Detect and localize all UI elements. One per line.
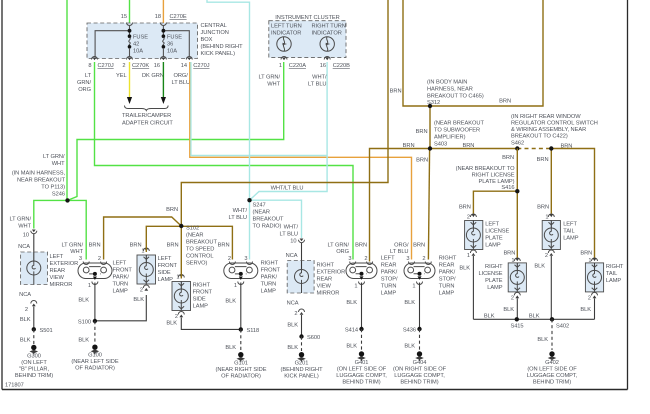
svg-text:WHT/: WHT/	[233, 208, 248, 214]
pin 2 connector	[229, 262, 235, 265]
wire BLK mirror to S600	[301, 315, 303, 337]
svg-text:TO RADIO): TO RADIO)	[253, 224, 282, 230]
svg-text:(NEAR: (NEAR	[253, 210, 270, 216]
svg-text:BRN: BRN	[580, 251, 592, 257]
svg-text:LAMP: LAMP	[439, 291, 455, 297]
svg-text:BLK: BLK	[534, 264, 545, 270]
wire BLK dashed S501 to G300	[33, 329, 35, 344]
svg-text:TURN: TURN	[261, 282, 277, 288]
wire WHT/LT BLU from IC pin16 down to S247	[250, 62, 328, 200]
svg-text:2: 2	[422, 256, 425, 262]
svg-text:TAIL: TAIL	[606, 271, 617, 277]
svg-text:2: 2	[467, 215, 470, 221]
wire LT GRN/WHT from IC pin1 down and left to S246	[68, 62, 284, 200]
svg-text:REAR: REAR	[439, 263, 455, 269]
svg-text:C270J: C270J	[98, 63, 114, 69]
svg-text:TRAILER/CAMPER: TRAILER/CAMPER	[122, 113, 171, 119]
pin 2 connector left mirror	[31, 301, 37, 307]
svg-text:G404: G404	[413, 360, 427, 366]
svg-text:2: 2	[122, 63, 125, 69]
wire 15 LT GRN into CJB	[129, 0, 131, 24]
pin 1 connector	[514, 258, 520, 261]
svg-text:10A: 10A	[133, 49, 143, 55]
svg-text:16: 16	[320, 63, 326, 69]
svg-text:BREAKOUT: BREAKOUT	[186, 240, 217, 246]
pin 3 connector	[409, 262, 415, 265]
wire BLK lamp to S436	[419, 283, 421, 330]
svg-text:(ON LEFT SIDE OF: (ON LEFT SIDE OF	[337, 367, 387, 373]
svg-text:BLK: BLK	[20, 317, 31, 323]
border frame right	[627, 0, 629, 390]
svg-text:2: 2	[511, 296, 514, 302]
border frame bottom	[2, 389, 628, 391]
svg-text:INDICATOR: INDICATOR	[312, 31, 342, 37]
S462 note text	[511, 114, 598, 147]
svg-text:BLK: BLK	[133, 297, 144, 303]
svg-text:VIEW: VIEW	[50, 275, 65, 281]
pin 8 connector symbol	[92, 57, 98, 61]
svg-text:(NEAR LEFT SIDE: (NEAR LEFT SIDE	[71, 359, 118, 365]
svg-text:PLATE: PLATE	[485, 278, 503, 284]
svg-text:S501: S501	[40, 328, 53, 334]
svg-text:BLK: BLK	[537, 337, 548, 343]
svg-text:G300: G300	[27, 354, 41, 360]
NCA stub left mirror	[33, 234, 35, 253]
splice S436	[403, 327, 422, 334]
svg-text:KICK PANEL): KICK PANEL)	[284, 374, 319, 380]
svg-text:TO SUBWOOFER: TO SUBWOOFER	[434, 128, 480, 134]
svg-text:BRN: BRN	[403, 143, 415, 149]
right rear park/stop/turn lamp	[404, 263, 435, 280]
svg-text:NCA: NCA	[287, 301, 299, 307]
svg-text:PARK/: PARK/	[113, 275, 130, 281]
svg-text:HARNESS, NEAR: HARNESS, NEAR	[427, 87, 473, 93]
pin 2 connector	[588, 292, 598, 301]
svg-text:(ON RIGHT SIDE OF: (ON RIGHT SIDE OF	[393, 367, 447, 373]
svg-text:C220B: C220B	[333, 63, 350, 69]
pin 2 connector right mirror	[299, 309, 305, 315]
splice S247	[247, 198, 251, 202]
svg-text:BREAKOUT TO C465): BREAKOUT TO C465)	[427, 94, 484, 100]
svg-text:MIRROR: MIRROR	[317, 291, 340, 297]
border frame left	[1, 0, 3, 390]
svg-text:BRN: BRN	[459, 205, 471, 211]
svg-text:RIGHT: RIGHT	[317, 263, 335, 269]
lamp name	[485, 222, 509, 249]
splice S102	[179, 224, 183, 228]
wire BRN big loop from top S312	[403, 0, 543, 106]
svg-text:LEFT: LEFT	[563, 222, 577, 228]
svg-text:TURN: TURN	[381, 284, 397, 290]
svg-text:SERVO): SERVO)	[186, 261, 208, 267]
svg-text:LEFT: LEFT	[50, 254, 64, 260]
svg-text:REAR: REAR	[381, 263, 397, 269]
svg-text:EXTERIOR: EXTERIOR	[50, 261, 79, 267]
svg-text:G401: G401	[355, 360, 369, 366]
svg-text:LAMP: LAMP	[261, 289, 277, 295]
svg-text:MIRROR: MIRROR	[50, 282, 73, 288]
svg-text:LAMP: LAMP	[158, 277, 174, 283]
svg-text:16: 16	[154, 63, 160, 69]
svg-text:INDICATOR: INDICATOR	[271, 31, 301, 37]
wire BLK lamp to S118	[240, 283, 242, 330]
svg-text:3: 3	[244, 256, 247, 262]
svg-text:BLK: BLK	[20, 338, 31, 344]
svg-text:BRN: BRN	[537, 157, 549, 163]
svg-text:WHT: WHT	[52, 161, 65, 167]
svg-text:BOX: BOX	[201, 37, 213, 43]
left front park/turn lamp	[78, 263, 112, 280]
svg-text:BRN: BRN	[89, 243, 101, 249]
svg-text:BRN: BRN	[537, 205, 549, 211]
svg-text:S246: S246	[52, 192, 65, 198]
svg-text:2: 2	[545, 253, 548, 259]
svg-text:1: 1	[467, 253, 470, 259]
svg-text:2: 2	[588, 296, 591, 302]
wire BRN from top to S102	[181, 0, 388, 224]
wire BLK dashed S402 to G402	[551, 319, 553, 350]
svg-text:EXTERIOR: EXTERIOR	[317, 270, 346, 276]
svg-text:S118: S118	[247, 328, 260, 334]
splice S403	[428, 146, 432, 150]
wire BLK lamp to S414	[361, 283, 363, 330]
wire BLK side lamp to S100	[95, 295, 146, 321]
CJB internal bus left	[95, 26, 131, 57]
wire BRN S312 down to S403	[429, 106, 431, 149]
svg-text:KICK PANEL): KICK PANEL)	[201, 51, 236, 57]
wire WHT/LT BLU thin branch beside orange to IC pin16 net	[191, 62, 327, 156]
pin 2 connector	[425, 262, 431, 265]
S246 branch to left front park/turn pin 3	[68, 200, 87, 259]
splice S402	[550, 317, 569, 329]
svg-text:BRN: BRN	[561, 144, 573, 150]
svg-text:ORG/: ORG/	[174, 73, 189, 79]
svg-text:1: 1	[412, 284, 415, 290]
splice S414	[345, 327, 364, 334]
svg-text:FRONT: FRONT	[193, 290, 213, 296]
svg-text:2: 2	[294, 311, 297, 317]
svg-text:171807: 171807	[5, 383, 24, 389]
pin 2 connector	[175, 312, 184, 321]
left mirror name	[50, 254, 79, 288]
S102 branch left to left front side lamp pin1	[146, 226, 181, 252]
svg-text:C220A: C220A	[289, 63, 306, 69]
lamp name	[158, 256, 178, 283]
wire LT GRN/ORG from CJB pin8 to left rear lamp	[95, 62, 354, 260]
wire BRN S462 down to S416 and right license pin1	[516, 149, 518, 260]
svg-text:1: 1	[279, 63, 282, 69]
svg-text:LEFT: LEFT	[113, 261, 127, 267]
svg-text:FUSE: FUSE	[133, 35, 148, 41]
svg-text:S402: S402	[556, 324, 569, 330]
svg-text:LT: LT	[85, 73, 92, 79]
svg-text:SIDE: SIDE	[158, 270, 171, 276]
splice S312	[428, 104, 432, 108]
svg-text:2: 2	[364, 256, 367, 262]
ground G201	[280, 352, 323, 380]
svg-text:LUGGAGE COMPT,: LUGGAGE COMPT,	[336, 373, 387, 379]
left license plate lamp	[465, 221, 483, 250]
wire BLK dashed S100 to G100	[94, 321, 96, 344]
svg-text:2: 2	[228, 256, 231, 262]
svg-text:ORG: ORG	[78, 87, 91, 93]
right mirror name	[317, 263, 346, 297]
svg-text:18: 18	[155, 14, 161, 20]
svg-text:TURN: TURN	[113, 282, 129, 288]
wire BRN S403 down to right rear lamp pin2	[428, 149, 429, 260]
svg-text:LICENSE: LICENSE	[479, 271, 503, 277]
pin 1 connector	[143, 248, 149, 251]
svg-text:1: 1	[88, 283, 91, 289]
trailer/camper adapter circuit brace and text	[122, 106, 173, 127]
svg-text:GRN/: GRN/	[77, 80, 91, 86]
svg-text:YEL: YEL	[116, 73, 127, 79]
svg-text:LAMP: LAMP	[193, 304, 209, 310]
svg-text:14: 14	[181, 63, 187, 69]
svg-text:RIGHT: RIGHT	[193, 283, 211, 289]
ground G101	[216, 352, 267, 380]
svg-text:ORG/: ORG/	[394, 243, 409, 249]
splice S462	[515, 146, 519, 150]
right mirror bulb	[295, 261, 309, 294]
wire BRN S416 left to left license pin2	[473, 191, 517, 213]
pin 2 connector	[470, 214, 476, 217]
left rear park/stop/turn lamp	[346, 263, 377, 280]
svg-text:BEHIND TRIM): BEHIND TRIM)	[15, 373, 53, 379]
svg-text:(NEAR RIGHT SIDE: (NEAR RIGHT SIDE	[216, 367, 267, 373]
svg-text:LT GRN/: LT GRN/	[327, 243, 349, 249]
svg-text:LUGGAGE COMPT,: LUGGAGE COMPT,	[394, 373, 445, 379]
splice S415	[510, 317, 523, 329]
svg-text:10: 10	[23, 233, 29, 239]
svg-text:BEHIND TRIM): BEHIND TRIM)	[533, 380, 571, 386]
wire BRN S403 left to left rear lamp pin2	[370, 149, 431, 262]
svg-text:S600: S600	[307, 335, 320, 341]
wire BLK ground bus	[473, 318, 594, 320]
svg-text:G201: G201	[295, 361, 309, 367]
left turn indicator lamp	[277, 37, 291, 51]
svg-text:AMPLIFIER): AMPLIFIER)	[434, 135, 466, 141]
lamp name	[381, 256, 398, 297]
svg-text:LICENSE: LICENSE	[485, 229, 509, 235]
svg-text:TURN: TURN	[439, 284, 455, 290]
svg-text:10A: 10A	[167, 49, 177, 55]
wire BLK mirror to S501	[33, 307, 35, 330]
svg-text:BLK: BLK	[346, 300, 357, 306]
wire BLK dashed S118 to G101	[240, 329, 242, 351]
NCA stub right mirror	[301, 243, 303, 261]
svg-text:BLK: BLK	[404, 344, 415, 350]
svg-text:(ON LEFT SIDE OF: (ON LEFT SIDE OF	[527, 367, 577, 373]
svg-text:S247: S247	[253, 203, 266, 209]
svg-text:8: 8	[88, 63, 91, 69]
svg-text:LT BLU: LT BLU	[308, 82, 326, 88]
svg-text:FRONT: FRONT	[261, 268, 281, 274]
svg-text:NCA: NCA	[19, 292, 31, 298]
right turn indicator lamp	[320, 37, 334, 51]
svg-text:10: 10	[290, 239, 296, 245]
pin 1 connector	[412, 282, 422, 290]
pin 2 connector symbol	[127, 57, 133, 61]
wire BLK right front side to S118	[181, 318, 241, 330]
svg-text:LAMP: LAMP	[487, 285, 503, 291]
svg-text:ORG: ORG	[336, 249, 349, 255]
svg-text:3: 3	[406, 256, 409, 262]
svg-text:BRN: BRN	[413, 243, 425, 249]
svg-text:LAMP: LAMP	[606, 278, 622, 284]
svg-text:(IN RIGHT REAR WINDOW: (IN RIGHT REAR WINDOW	[511, 114, 581, 120]
right tail lamp	[585, 263, 603, 292]
svg-text:RIGHT: RIGHT	[439, 256, 457, 262]
svg-text:BRN: BRN	[499, 99, 511, 105]
svg-text:(BEHIND RIGHT: (BEHIND RIGHT	[280, 367, 323, 373]
svg-text:36: 36	[167, 42, 173, 48]
svg-text:G402: G402	[545, 360, 559, 366]
svg-text:LEFT: LEFT	[381, 256, 395, 262]
svg-text:PARK/: PARK/	[439, 270, 456, 276]
lamp name	[606, 264, 624, 284]
svg-text:LAMP: LAMP	[113, 289, 129, 295]
svg-text:BLK: BLK	[459, 266, 470, 272]
pin 16 connector symbol	[160, 57, 166, 61]
wire BLK dashed S414 to G401	[361, 329, 363, 350]
svg-text:OF RADIATOR): OF RADIATOR)	[221, 374, 261, 380]
svg-text:S436: S436	[403, 328, 416, 334]
svg-text:LT GRN/: LT GRN/	[61, 243, 83, 249]
svg-text:STOP/: STOP/	[381, 277, 398, 283]
svg-text:LAMP: LAMP	[563, 236, 579, 242]
svg-text:BLK: BLK	[225, 299, 236, 305]
splice tail tap	[549, 146, 553, 150]
svg-text:LEFT TURN: LEFT TURN	[271, 24, 302, 30]
svg-text:REGULATOR CONTROL SWITCH: REGULATOR CONTROL SWITCH	[511, 121, 598, 127]
svg-text:BLK: BLK	[287, 345, 298, 351]
svg-text:(BEHIND RIGHT: (BEHIND RIGHT	[201, 44, 244, 50]
svg-text:WHT: WHT	[18, 224, 31, 230]
svg-text:BRN: BRN	[130, 243, 142, 249]
svg-text:LT GRN/: LT GRN/	[43, 154, 65, 160]
svg-text:(NEAR BREAKOUT TO: (NEAR BREAKOUT TO	[456, 166, 516, 172]
svg-text:BRN: BRN	[390, 89, 402, 95]
S102 branch left to left front park pin2	[104, 217, 182, 260]
splice S600	[299, 334, 320, 341]
wire BLK left license to bus	[472, 256, 474, 319]
svg-text:INSTRUMENT CLUSTER: INSTRUMENT CLUSTER	[275, 15, 339, 21]
svg-text:S100: S100	[78, 320, 91, 326]
wire 18 ORG into CJB	[162, 0, 164, 24]
svg-text:BRN: BRN	[355, 243, 367, 249]
pin 1 connector	[178, 275, 184, 278]
pin 18 connector symbol	[160, 23, 166, 26]
ground G401	[336, 351, 387, 385]
svg-text:(IN BODY MAIN: (IN BODY MAIN	[427, 80, 467, 86]
pin 2 connector	[140, 285, 149, 294]
svg-text:G100: G100	[88, 353, 102, 359]
svg-text:RIGHT: RIGHT	[261, 261, 279, 267]
svg-text:STOP/: STOP/	[439, 277, 456, 283]
splice S416	[515, 189, 519, 193]
svg-text:BLK: BLK	[404, 300, 415, 306]
splice S118	[239, 327, 260, 334]
svg-text:42: 42	[133, 42, 139, 48]
pin 1 connector	[234, 282, 244, 290]
svg-text:G101: G101	[234, 361, 248, 367]
svg-text:OF RADIATOR): OF RADIATOR)	[75, 366, 115, 372]
ground G402	[527, 351, 578, 385]
left tail lamp	[542, 221, 560, 250]
wire BLK right tail to bus	[594, 298, 596, 319]
svg-text:BLK: BLK	[78, 298, 89, 304]
pin 1 connector	[592, 258, 598, 261]
ground G404	[393, 351, 447, 385]
fuse 42 10A	[128, 34, 149, 57]
S247 branch to right mirror pin 10	[250, 200, 302, 238]
svg-text:& WIRING ASSEMBLY, NEAR: & WIRING ASSEMBLY, NEAR	[511, 127, 586, 133]
svg-text:1: 1	[234, 283, 237, 289]
svg-text:LEFT: LEFT	[158, 256, 172, 262]
left mirror bulb	[27, 252, 41, 285]
svg-text:C270K: C270K	[132, 63, 149, 69]
svg-text:DK GRN: DK GRN	[142, 73, 164, 79]
svg-text:LUGGAGE COMPT,: LUGGAGE COMPT,	[527, 373, 578, 379]
svg-text:S462: S462	[511, 141, 524, 147]
svg-text:S102: S102	[186, 226, 199, 232]
wire BRN tap to right tail lamp pin1	[551, 149, 594, 259]
svg-text:VIEW: VIEW	[317, 284, 332, 290]
svg-text:FUSE: FUSE	[167, 35, 182, 41]
svg-text:BRN: BRN	[502, 155, 514, 161]
lamp name	[261, 261, 281, 295]
svg-text:1: 1	[354, 284, 357, 290]
svg-text:REAR: REAR	[317, 277, 333, 283]
svg-text:TO P113): TO P113)	[41, 185, 65, 191]
svg-text:LAMP: LAMP	[381, 291, 397, 297]
ground G100	[71, 345, 118, 372]
svg-text:2: 2	[98, 256, 101, 262]
svg-text:WHT/: WHT/	[312, 75, 327, 81]
fuse 36 10A	[162, 34, 183, 57]
svg-text:WHT/: WHT/	[284, 225, 299, 231]
CJB internal bus right	[162, 26, 190, 57]
svg-text:C270E: C270E	[170, 14, 187, 20]
svg-text:S414: S414	[345, 328, 358, 334]
wire ORG/LT BLU from CJB pin14 to right rear lamp pin3	[190, 62, 412, 260]
svg-text:SIDE: SIDE	[193, 297, 206, 303]
instrument cluster box	[269, 21, 346, 58]
S416 note text	[456, 166, 516, 191]
pin 10 connector symbol left mirror	[31, 230, 37, 234]
svg-text:15: 15	[121, 14, 127, 20]
svg-text:S312: S312	[427, 100, 440, 106]
wire DK GRN to trailer adapter	[161, 62, 166, 104]
pin 14 connector symbol	[186, 57, 192, 61]
svg-text:3: 3	[79, 256, 82, 262]
svg-text:LT BLU: LT BLU	[390, 249, 408, 255]
svg-text:(NEAR: (NEAR	[186, 233, 203, 239]
svg-text:S416: S416	[501, 185, 514, 191]
svg-text:BRN: BRN	[503, 251, 515, 257]
svg-text:S403: S403	[434, 142, 447, 148]
S246 note text	[12, 171, 66, 198]
wire BRN tap down to left tail lamp pin1	[550, 149, 552, 214]
pin 3 connector	[247, 262, 253, 265]
wire BLK dashed S436 to G404	[419, 329, 421, 350]
wire LT GRN/WHT from top to S246	[66, 0, 68, 200]
lamp name	[439, 256, 457, 297]
wire BLK left tail to bus	[550, 256, 552, 319]
wire BRN S403 right to S462	[430, 148, 517, 150]
svg-text:WHT: WHT	[267, 82, 280, 88]
